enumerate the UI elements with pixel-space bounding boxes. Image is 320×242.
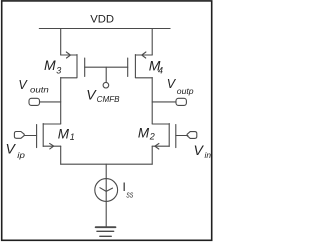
wire M4 drain to M2 drain (node outp) (151, 78, 153, 124)
Vip label (6, 140, 26, 159)
svg-text:2: 2 (149, 132, 155, 142)
port Voutn (29, 98, 40, 105)
svg-text:CMFB: CMFB (97, 94, 120, 104)
Voutp label (167, 77, 194, 96)
port VCMFB (103, 82, 109, 88)
wire VDD rail to M4 source (151, 29, 153, 56)
svg-text:3: 3 (56, 66, 61, 76)
VDD power rail (39, 28, 170, 30)
transistor M3 (PMOS) (61, 52, 85, 78)
transistor M4 (PMOS) (128, 52, 153, 78)
port Voutp (176, 98, 186, 105)
svg-text:M: M (58, 126, 70, 141)
M3 label (44, 57, 61, 75)
wire tail rail (61, 163, 153, 165)
transistor M2 (NMOS) (152, 124, 188, 149)
svg-text:SS: SS (126, 190, 133, 199)
wire M3 drain to M1 drain (node outn) (60, 78, 62, 124)
svg-text:M: M (138, 125, 150, 140)
Vin label (194, 142, 212, 160)
svg-text:VDD: VDD (90, 14, 114, 26)
svg-text:ip: ip (17, 150, 25, 160)
Voutn label (18, 78, 49, 95)
wire M1 source to tail node (60, 146, 62, 164)
svg-text:outp: outp (177, 87, 194, 96)
wire gate net to VCMFB port (105, 67, 107, 82)
svg-text:M: M (44, 57, 56, 73)
wire M2 source to tail node (151, 146, 153, 164)
svg-text:outn: outn (30, 86, 49, 95)
svg-text:4: 4 (158, 66, 163, 76)
wire VDD rail to M3 source (60, 29, 62, 56)
VCMFB label (86, 87, 120, 104)
wire node outn to Voutn port (40, 101, 61, 103)
M4 label (149, 58, 163, 76)
M2 label (138, 125, 155, 141)
M1 label (58, 126, 75, 141)
current source ISS (95, 179, 118, 202)
svg-text:in: in (205, 150, 212, 160)
ground (96, 227, 116, 236)
svg-text:1: 1 (70, 132, 75, 142)
transistor M1 (NMOS) (24, 124, 61, 149)
wire M3 gate to M4 gate (net VCMFB) (85, 66, 128, 68)
port Vip (14, 132, 24, 139)
port Vin (187, 132, 197, 139)
wire node outp to Voutp port (152, 101, 176, 103)
ISS label (123, 180, 134, 199)
wire tail node through ISS to ground (105, 164, 107, 226)
